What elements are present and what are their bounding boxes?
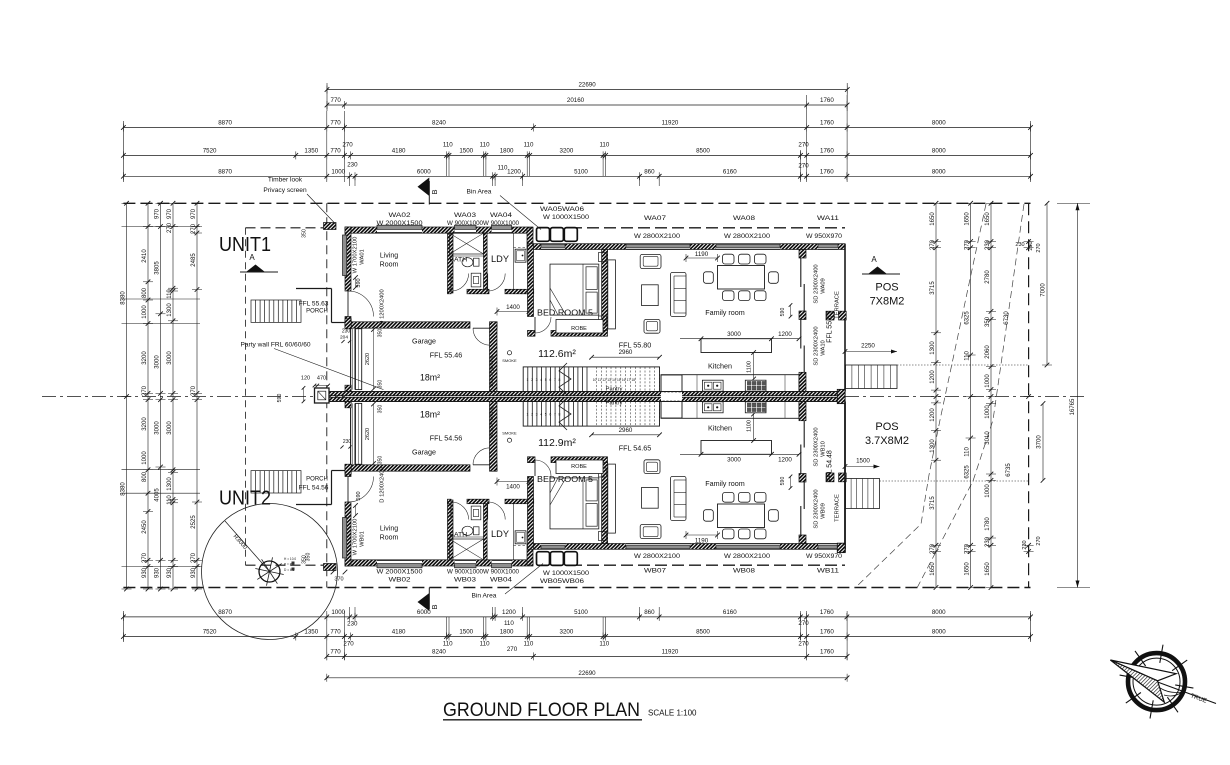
svg-text:270: 270 [798, 640, 809, 647]
svg-text:4: 4 [540, 413, 542, 417]
svg-text:Timber look: Timber look [268, 177, 303, 184]
svg-text:8500: 8500 [696, 629, 710, 636]
section marker B top [428, 181, 430, 205]
svg-text:3010: 3010 [985, 431, 991, 445]
svg-text:3200: 3200 [142, 351, 148, 365]
leader bin area top [500, 196, 541, 230]
svg-text:Garage: Garage [412, 448, 436, 457]
bath south wall [448, 499, 452, 504]
terrace pier [839, 311, 847, 320]
dim 1190 dining [686, 534, 718, 536]
svg-text:8240: 8240 [432, 648, 446, 655]
kitchen bench [661, 402, 799, 419]
svg-text:BATH: BATH [450, 532, 468, 539]
svg-text:1760: 1760 [820, 120, 834, 127]
svg-text:270: 270 [191, 223, 197, 234]
svg-text:8: 8 [558, 413, 560, 417]
kitchen island dim line 3000/1200 [680, 453, 799, 455]
svg-text:2960: 2960 [619, 427, 633, 434]
svg-text:590: 590 [356, 278, 362, 287]
bed [550, 264, 599, 315]
svg-text:SD 2300X2400: SD 2300X2400 [814, 489, 820, 528]
bin area bins [537, 228, 550, 242]
central stairs lower flight [523, 402, 659, 427]
svg-text:Garage: Garage [412, 337, 436, 346]
bath vanity [471, 506, 481, 520]
ldy door [487, 502, 489, 520]
svg-text:8000: 8000 [932, 120, 946, 127]
svg-text:Bicycle parking: Bicycle parking [489, 355, 494, 386]
svg-text:3.7X8M2: 3.7X8M2 [865, 435, 909, 447]
svg-text:270: 270 [507, 646, 518, 653]
svg-text:7: 7 [554, 413, 556, 417]
dimension row 22690 top [327, 89, 847, 91]
svg-text:ROBE: ROBE [571, 464, 587, 470]
svg-text:1000: 1000 [985, 374, 991, 388]
svg-text:W 2800X2100: W 2800X2100 [724, 233, 771, 240]
bedroom west wall [528, 477, 534, 550]
svg-text:1000: 1000 [331, 609, 345, 616]
terrace bottom corner pier [837, 543, 845, 552]
svg-text:H = 10.0: H = 10.0 [284, 557, 296, 561]
svg-text:3000: 3000 [154, 421, 160, 435]
svg-text:1760: 1760 [820, 147, 834, 154]
pantry cabinet [661, 402, 682, 419]
svg-text:15: 15 [617, 378, 621, 382]
svg-text:270: 270 [798, 620, 809, 627]
ldy south wall [505, 499, 534, 504]
svg-text:WB04: WB04 [490, 577, 513, 584]
svg-text:FFL 54.65: FFL 54.65 [619, 444, 652, 453]
sliding door WA09 [800, 506, 802, 535]
dimension row 8870/1000/230/6000.. top [123, 175, 1030, 177]
svg-text:3000: 3000 [167, 351, 173, 365]
svg-text:GROUND FLOOR PLAN: GROUND FLOOR PLAN [443, 699, 640, 721]
svg-text:WB03: WB03 [454, 577, 477, 584]
garage west wall face [350, 403, 352, 464]
svg-text:800: 800 [142, 287, 148, 298]
left wall upper with window WA01 [345, 227, 351, 291]
svg-text:Kitchen: Kitchen [708, 362, 732, 371]
svg-text:7X8M2: 7X8M2 [870, 296, 905, 308]
radius line R3000 [225, 521, 270, 572]
front wall living/bath/ldy [345, 227, 533, 233]
svg-text:1760: 1760 [820, 97, 834, 104]
bedside tables [599, 532, 607, 541]
svg-text:Family room: Family room [705, 479, 745, 488]
svg-text:WA03: WA03 [454, 212, 477, 219]
svg-text:860: 860 [644, 168, 655, 175]
svg-text:8000: 8000 [932, 147, 946, 154]
svg-text:6325: 6325 [964, 465, 970, 479]
sliding door WA10 [800, 320, 802, 349]
svg-text:3715: 3715 [930, 281, 936, 295]
garage door dim 2620 [373, 404, 375, 464]
pos stairs dotted line top [897, 364, 1029, 366]
window WA08 [716, 245, 780, 249]
dimension row 8870/770/8240/11920/1760/8000 [123, 127, 1030, 129]
svg-text:2485: 2485 [191, 253, 197, 267]
svg-text:Bin Area: Bin Area [472, 593, 497, 600]
svg-text:970: 970 [167, 208, 173, 219]
window WA11 [818, 245, 838, 249]
svg-text:2: 2 [531, 378, 533, 382]
robe [556, 320, 603, 334]
svg-text:W 2000X1500: W 2000X1500 [377, 569, 424, 576]
svg-text:1200: 1200 [778, 457, 792, 464]
svg-text:16765: 16765 [1070, 398, 1076, 415]
svg-text:SD 2300X2400: SD 2300X2400 [814, 326, 820, 365]
svg-text:1000: 1000 [142, 451, 148, 465]
svg-text:FFL 54.48: FFL 54.48 [827, 450, 834, 482]
svg-text:3000: 3000 [727, 331, 741, 338]
armchair 2 [644, 460, 660, 474]
svg-text:270: 270 [930, 239, 936, 250]
svg-text:7520: 7520 [203, 629, 217, 636]
svg-text:3: 3 [536, 378, 538, 382]
kitchen island [701, 441, 772, 455]
window dim 590 [355, 506, 357, 516]
svg-text:112.9m²: 112.9m² [538, 437, 576, 449]
bath vanity [471, 273, 481, 287]
svg-text:D 1200X2400: D 1200X2400 [380, 467, 386, 502]
window WA08 [716, 544, 780, 548]
front wall living/bath/ldy [345, 560, 533, 566]
svg-text:3700: 3700 [1037, 435, 1043, 449]
svg-text:WB02: WB02 [389, 577, 412, 584]
svg-text:1350: 1350 [304, 629, 318, 636]
svg-text:590: 590 [780, 477, 786, 486]
svg-text:350: 350 [378, 380, 384, 389]
bedroom west wall [528, 244, 534, 317]
svg-text:6160: 6160 [723, 609, 737, 616]
svg-text:W 900X1000: W 900X1000 [447, 220, 484, 227]
svg-text:PORCH: PORCH [306, 309, 328, 315]
svg-text:FFL 54.56: FFL 54.56 [430, 434, 463, 443]
garage west wall face [350, 329, 352, 390]
coffee table [642, 285, 659, 306]
svg-text:W 950X970: W 950X970 [806, 233, 843, 240]
svg-text:WA08: WA08 [733, 215, 756, 222]
svg-text:1760: 1760 [820, 629, 834, 636]
svg-text:POS: POS [875, 282, 898, 294]
svg-text:WA11: WA11 [817, 215, 840, 222]
leader party wall [274, 349, 384, 390]
svg-text:8870: 8870 [218, 168, 232, 175]
lot boundary dashed top [123, 202, 1030, 204]
svg-text:590: 590 [780, 308, 786, 317]
svg-text:3715: 3715 [930, 496, 936, 510]
svg-text:8000: 8000 [932, 168, 946, 175]
svg-text:5: 5 [545, 413, 547, 417]
svg-text:1300: 1300 [167, 303, 173, 317]
bedroom south wall [528, 457, 536, 463]
window WA04 [492, 227, 512, 233]
svg-text:270: 270 [343, 640, 354, 647]
svg-text:6730: 6730 [1004, 311, 1010, 325]
svg-text:230: 230 [985, 239, 991, 250]
corner wall ldy-bedroom [527, 544, 533, 565]
svg-text:Bicycle parking: Bicycle parking [489, 406, 494, 437]
svg-text:2960: 2960 [619, 349, 633, 356]
party wall [329, 392, 845, 396]
svg-text:W 1700X2100: W 1700X2100 [353, 237, 359, 274]
centre line right [845, 396, 1085, 398]
svg-text:7000: 7000 [1041, 283, 1047, 297]
window WA07 [626, 544, 690, 548]
svg-text:8380: 8380 [120, 291, 126, 305]
dining chairs [723, 529, 735, 539]
svg-text:WB11: WB11 [817, 568, 840, 575]
svg-text:11: 11 [598, 378, 602, 382]
svg-text:W 900X1000: W 900X1000 [483, 220, 520, 227]
svg-text:W 1700X2100: W 1700X2100 [353, 519, 359, 556]
svg-text:WB01: WB01 [360, 531, 366, 547]
left dim column B [147, 203, 149, 589]
terrace east edge [844, 402, 846, 550]
svg-text:WA04: WA04 [490, 212, 513, 219]
dim row end connectors [122, 121, 124, 182]
sliding door WA10 [800, 445, 802, 474]
svg-text:6325: 6325 [964, 311, 970, 325]
bath south wall [448, 289, 452, 294]
terrace east edge [844, 244, 846, 392]
toilet [462, 258, 473, 267]
svg-text:W 2800X2100: W 2800X2100 [634, 233, 681, 240]
svg-text:Pantry: Pantry [606, 401, 623, 407]
svg-text:SCALE 1:100: SCALE 1:100 [648, 709, 697, 718]
smoke detector [507, 351, 511, 355]
privacy screen stub wall [324, 564, 337, 571]
svg-text:TERRACE: TERRACE [835, 494, 841, 522]
svg-text:13: 13 [607, 378, 611, 382]
svg-text:1650: 1650 [964, 562, 970, 576]
garage door panel [356, 329, 362, 390]
bath door [450, 274, 452, 292]
building line dashed top right [570, 227, 845, 229]
bath door [450, 502, 452, 520]
svg-text:1190: 1190 [695, 538, 709, 545]
svg-text:230: 230 [342, 329, 351, 335]
svg-text:1760: 1760 [820, 609, 834, 616]
left dim column D [172, 203, 174, 589]
svg-text:1400: 1400 [506, 484, 520, 491]
svg-text:1760: 1760 [820, 648, 834, 655]
svg-text:4180: 4180 [392, 147, 406, 154]
garage west wall corner top [345, 319, 351, 329]
bedroom door [534, 317, 536, 333]
ldy sink [515, 249, 526, 262]
bath west wall [448, 233, 454, 293]
terrace pier [839, 473, 847, 482]
svg-text:1650: 1650 [964, 212, 970, 226]
svg-text:WA07: WA07 [644, 215, 667, 222]
svg-text:WA01: WA01 [360, 249, 366, 265]
svg-text:1100: 1100 [747, 361, 753, 373]
svg-text:A: A [871, 255, 877, 264]
svg-text:770: 770 [331, 97, 342, 104]
central stairs upper flight [523, 367, 659, 392]
svg-text:110: 110 [480, 141, 490, 148]
window WA04 [492, 560, 512, 566]
svg-text:Living: Living [380, 526, 398, 533]
svg-text:WA05: WA05 [540, 206, 563, 213]
dining chairs [723, 254, 735, 264]
svg-text:970: 970 [154, 208, 160, 219]
svg-text:B: B [430, 189, 439, 194]
porch outline [296, 288, 332, 290]
svg-text:470: 470 [317, 376, 326, 382]
armchair 2 [644, 319, 660, 333]
svg-text:770: 770 [330, 147, 341, 154]
svg-text:204: 204 [340, 335, 348, 341]
svg-text:2: 2 [531, 413, 533, 417]
bath/ldy divider wall [484, 500, 488, 560]
porch outline [296, 504, 332, 506]
svg-text:110: 110 [480, 640, 490, 647]
svg-text:110: 110 [523, 640, 533, 647]
lot boundary dashed right [1028, 203, 1030, 587]
kitchen island dim line 3000/1200 [680, 338, 799, 340]
garage front wall [345, 465, 470, 471]
svg-text:2525: 2525 [191, 515, 197, 529]
left dim column 8380/8380 [126, 203, 128, 589]
svg-text:3200: 3200 [560, 629, 574, 636]
svg-text:860: 860 [644, 609, 655, 616]
svg-text:270: 270 [1036, 243, 1042, 252]
cap dim 590 vertical [303, 388, 305, 402]
svg-text:1: 1 [527, 378, 529, 382]
svg-text:1000: 1000 [331, 168, 345, 175]
svg-text:110: 110 [443, 640, 453, 647]
sofa [671, 272, 687, 316]
family room dim 590 [790, 476, 792, 488]
svg-text:3200: 3200 [560, 147, 574, 154]
left dim column E [196, 203, 198, 589]
right dim column x991 [990, 203, 992, 587]
svg-text:W 950X970: W 950X970 [806, 553, 843, 560]
svg-text:270: 270 [191, 385, 197, 396]
garage side door [473, 464, 490, 466]
svg-text:Room: Room [380, 535, 399, 542]
svg-text:5100: 5100 [574, 609, 588, 616]
entry door D 1200X2400 [347, 477, 349, 503]
svg-text:270: 270 [342, 141, 353, 148]
svg-text:270: 270 [142, 385, 148, 396]
svg-text:770: 770 [330, 629, 341, 636]
svg-text:WB05: WB05 [540, 578, 563, 585]
window WA02 [377, 560, 422, 566]
porch steps [251, 471, 301, 493]
svg-text:1200: 1200 [930, 370, 936, 384]
svg-text:UNIT2: UNIT2 [219, 487, 271, 510]
svg-text:14: 14 [612, 378, 616, 382]
kitchen dim 1100 [753, 414, 755, 441]
svg-text:6735: 6735 [1006, 463, 1012, 477]
svg-text:8: 8 [558, 378, 560, 382]
svg-text:SD 2300X2400: SD 2300X2400 [814, 427, 820, 466]
cap dim ticks 120 470 [315, 385, 330, 387]
kitchen bench [661, 375, 799, 392]
svg-text:3805: 3805 [154, 261, 160, 275]
svg-text:18m²: 18m² [420, 410, 440, 420]
svg-text:930: 930 [191, 567, 197, 578]
svg-text:W 900X1000: W 900X1000 [447, 569, 484, 576]
kitchen sink [702, 402, 723, 413]
svg-text:1650: 1650 [985, 212, 991, 226]
terrace bottom east edge [844, 402, 846, 553]
ldy sink [515, 531, 526, 544]
dimension row 770/8240/11920/1760 bottom [327, 655, 847, 657]
svg-text:230: 230 [1028, 241, 1034, 250]
svg-text:270: 270 [798, 162, 809, 169]
svg-text:1300: 1300 [930, 341, 936, 355]
svg-text:A: A [249, 253, 255, 262]
svg-text:1200: 1200 [930, 408, 936, 422]
svg-text:FFL 55.46: FFL 55.46 [430, 351, 463, 360]
window WA05 WA06 [541, 544, 565, 548]
svg-text:1000: 1000 [985, 484, 991, 498]
svg-text:350: 350 [306, 553, 312, 562]
svg-text:1100: 1100 [747, 420, 753, 432]
svg-text:1650: 1650 [930, 212, 936, 226]
dimension row 770/20160/1760 [327, 104, 847, 106]
svg-text:2780: 2780 [985, 270, 991, 284]
shower with X [450, 539, 484, 560]
svg-text:270: 270 [930, 543, 936, 554]
svg-text:11920: 11920 [662, 120, 679, 127]
svg-text:8870: 8870 [218, 609, 232, 616]
svg-text:2250: 2250 [861, 343, 875, 350]
svg-text:350: 350 [378, 456, 384, 465]
svg-text:1800: 1800 [500, 629, 514, 636]
dimension row 7520..8000 top [123, 154, 1030, 156]
envelope dashed left yard [246, 227, 325, 229]
svg-text:110: 110 [964, 447, 970, 457]
svg-text:1300: 1300 [930, 439, 936, 453]
east wall segments with sliding doors [799, 250, 806, 259]
svg-text:270: 270 [1036, 536, 1042, 545]
svg-text:BATH: BATH [450, 257, 468, 264]
svg-text:110: 110 [524, 141, 534, 148]
svg-text:230: 230 [1015, 242, 1024, 248]
pos dim 1500 bottom [845, 466, 880, 468]
leader bin area bottom [505, 564, 543, 595]
svg-text:D 1200X2400: D 1200X2400 [380, 289, 386, 324]
bedroom south wall [528, 330, 536, 336]
garage east wall / bicycle parking wall [490, 322, 498, 393]
section marker B bottom [428, 588, 430, 610]
svg-text:590: 590 [277, 394, 283, 403]
svg-text:5100: 5100 [574, 168, 588, 175]
svg-text:120: 120 [301, 376, 310, 382]
right dashed col ticks [1026, 239, 1031, 244]
svg-text:350: 350 [378, 405, 384, 414]
svg-text:110: 110 [167, 495, 173, 505]
svg-text:2410: 2410 [142, 249, 148, 263]
garage front wall [345, 322, 470, 328]
svg-text:7: 7 [554, 378, 556, 382]
svg-text:1400: 1400 [506, 304, 520, 311]
svg-text:1500: 1500 [459, 629, 473, 636]
svg-text:Family room: Family room [705, 308, 745, 317]
svg-text:1300: 1300 [167, 477, 173, 491]
svg-text:12: 12 [602, 378, 606, 382]
svg-text:270: 270 [964, 239, 970, 250]
svg-text:8000: 8000 [932, 629, 946, 636]
leader timber look [307, 194, 336, 225]
svg-text:930: 930 [154, 567, 160, 578]
